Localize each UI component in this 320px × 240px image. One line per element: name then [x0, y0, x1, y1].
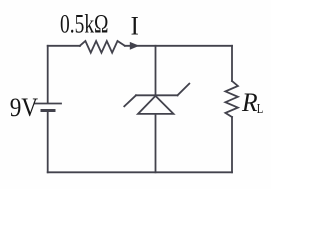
- wire left branch lower: [47, 111, 49, 172]
- resistor RL zigzag: [225, 81, 238, 117]
- wire left branch upper: [47, 46, 49, 103]
- wire resistor to top-right corner: [125, 45, 232, 47]
- battery B1 short plate: [42, 109, 54, 112]
- wire right branch upper: [231, 46, 233, 81]
- zener diode D1 left wing: [124, 95, 136, 106]
- zener diode D1 cathode bar: [136, 94, 178, 96]
- svg-text:L: L: [257, 102, 264, 117]
- battery B1 long plate: [35, 103, 62, 105]
- wire right branch lower: [231, 117, 233, 172]
- svg-text:9V: 9V: [10, 93, 39, 122]
- wire bottom rail: [48, 171, 232, 173]
- wire middle branch upper: [155, 46, 157, 96]
- resistor R (0.5k) zigzag: [80, 41, 125, 53]
- current arrow I head: [130, 42, 140, 50]
- svg-text:I: I: [131, 11, 139, 40]
- wire top-left corner to resistor: [48, 45, 80, 47]
- svg-text:R: R: [241, 88, 258, 117]
- zener diode D1 triangle: [138, 96, 174, 114]
- zener diode D1 right wing: [178, 84, 190, 96]
- wire middle branch lower: [155, 114, 157, 172]
- svg-text:0.5kΩ: 0.5kΩ: [60, 10, 109, 39]
